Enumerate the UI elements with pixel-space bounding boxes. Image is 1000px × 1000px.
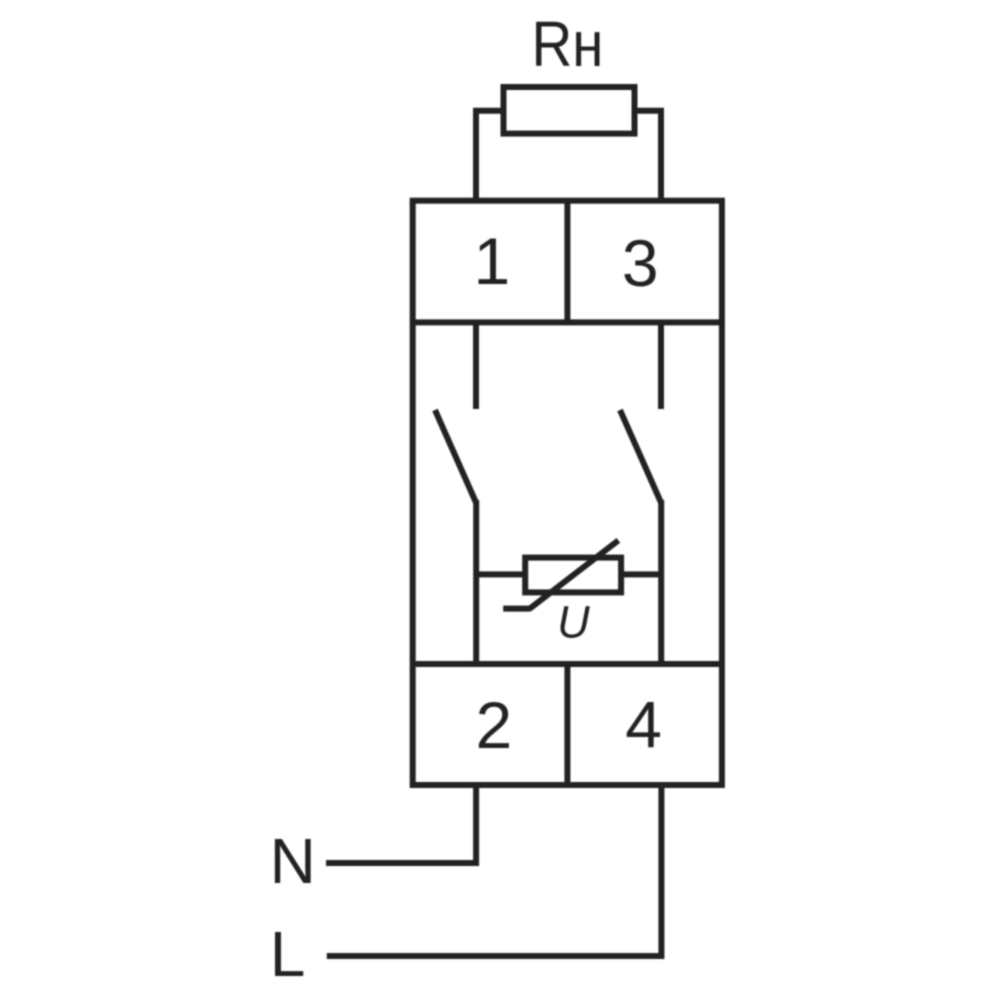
wire varistor left [476, 571, 525, 577]
varistor U box [525, 558, 621, 593]
switch blade S2 [620, 410, 661, 503]
wire varistor right [621, 571, 661, 577]
svg-text:L: L [270, 918, 306, 990]
wire from switch S1 to terminal 2 [473, 500, 479, 664]
switch blade S1 [435, 410, 476, 503]
svg-text:3: 3 [622, 226, 659, 300]
wire terminal 2 to N [326, 785, 476, 863]
svg-text:U: U [557, 597, 590, 648]
terminal divider bottom (between 2 and 4) [564, 664, 570, 785]
wire terminal 4 to L [327, 785, 662, 956]
svg-text:Rн: Rн [532, 8, 604, 80]
wire from switch S2 to terminal 4 [658, 500, 664, 664]
svg-text:N: N [270, 825, 316, 897]
svg-text:2: 2 [475, 688, 512, 762]
varistor diagonal stroke [530, 540, 619, 608]
terminal divider top (between 1 and 3) [564, 201, 570, 323]
terminal strip edge bottom [413, 661, 722, 667]
wire from terminal 3 [658, 322, 664, 409]
varistor diagonal foot [503, 606, 531, 612]
resistor RH box [504, 87, 635, 134]
svg-text:4: 4 [625, 687, 662, 761]
wire from terminal 1 [473, 322, 479, 409]
svg-text:1: 1 [473, 224, 510, 298]
wire right bracket of RH [635, 111, 662, 201]
wire left bracket of RH [476, 111, 504, 201]
terminal strip edge top [413, 319, 722, 325]
module outline [413, 201, 722, 785]
